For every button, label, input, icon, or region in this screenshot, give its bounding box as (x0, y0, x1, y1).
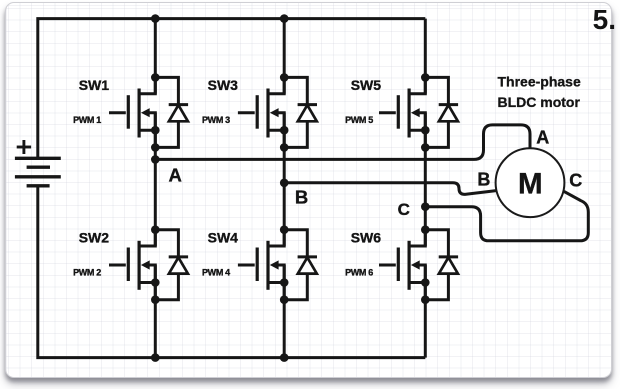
svg-text:B: B (295, 187, 308, 208)
svg-text:SW5: SW5 (351, 77, 382, 93)
svg-text:PWM 6: PWM 6 (345, 268, 373, 278)
svg-text:SW2: SW2 (79, 230, 110, 246)
svg-text:C: C (398, 200, 410, 219)
svg-text:Three-phase: Three-phase (498, 73, 581, 89)
svg-text:C: C (569, 171, 582, 191)
svg-text:M: M (518, 167, 543, 200)
svg-text:BLDC motor: BLDC motor (498, 94, 581, 110)
svg-text:PWM 2: PWM 2 (73, 268, 101, 278)
svg-text:PWM 4: PWM 4 (202, 268, 230, 278)
svg-text:A: A (169, 165, 182, 186)
svg-text:SW1: SW1 (79, 77, 110, 93)
svg-text:PWM 1: PWM 1 (73, 115, 101, 125)
svg-text:A: A (536, 127, 549, 147)
svg-text:SW4: SW4 (208, 230, 239, 246)
svg-text:SW6: SW6 (351, 230, 382, 246)
svg-text:PWM 3: PWM 3 (202, 115, 230, 125)
svg-text:PWM 5: PWM 5 (345, 115, 373, 125)
svg-text:B: B (477, 170, 490, 190)
svg-text:5.: 5. (593, 4, 616, 35)
svg-text:SW3: SW3 (208, 77, 239, 93)
